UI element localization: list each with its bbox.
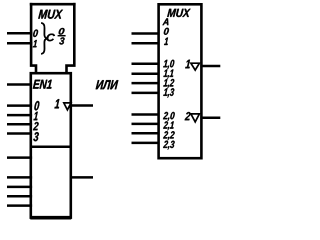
output label 1 (upper element): [54, 99, 59, 108]
open-output triangle (upper element): [64, 103, 71, 110]
wire EN1 input: [7, 83, 32, 86]
fraction denominator 3: [59, 37, 64, 44]
pin label 2,0: [163, 112, 175, 121]
label A (address group): [162, 18, 168, 25]
element array block U2 outline (two stacked MUX elements, left diagram): [31, 73, 71, 217]
output label 1 (right block): [185, 60, 190, 69]
wire input 2,1: [132, 123, 160, 126]
open-output triangle 2 (right block): [191, 114, 200, 122]
pin label 2,1: [163, 121, 174, 130]
pin label 2,2: [163, 131, 175, 140]
wire address input 0 (right block): [132, 32, 160, 35]
fraction numerator 0: [59, 28, 65, 35]
pin label 3: [33, 132, 38, 141]
label C (select dependency): [47, 34, 55, 42]
pin label 2: [33, 122, 39, 130]
label MUX (control block title): [38, 10, 63, 19]
wire input 2,0: [132, 113, 160, 116]
brace grouping select inputs: [41, 23, 47, 54]
wire input 2,3: [132, 142, 160, 145]
wire input 3 (upper element): [7, 132, 32, 135]
wire input 1 (lower element): [7, 186, 32, 189]
label EN1: [33, 80, 52, 89]
wire output 1 (right block): [200, 65, 220, 68]
wire output 2 (right block): [200, 117, 220, 120]
open-output triangle 1 (right block): [191, 63, 200, 70]
bottom edge (thicker, scan look): [30, 216, 71, 220]
wire output (lower element): [70, 176, 93, 179]
pin label 1,2: [163, 79, 174, 88]
wire input 0 (upper element): [7, 104, 32, 107]
label MUX (right block title): [167, 9, 190, 17]
pin label 0: [34, 101, 39, 110]
select input label 1: [33, 40, 37, 47]
wire input 1,0: [132, 63, 160, 66]
wire input 2 (upper element): [7, 123, 32, 126]
wire input 2,2: [132, 132, 160, 135]
wire address input 1 (right block): [132, 42, 160, 45]
wire input 2 (lower element): [7, 195, 32, 198]
address pin label 1: [164, 38, 168, 45]
wire input 1,1: [132, 73, 160, 76]
pin label 1: [34, 112, 38, 120]
select input label 0: [33, 30, 38, 38]
pin label 1,1: [163, 69, 173, 78]
label ILI (OR alternative): [96, 80, 119, 89]
control block U1 outline (MUX common control block, left diagram): [30, 3, 76, 74]
pin label 1,3: [163, 88, 174, 97]
wire EN input (lower element): [7, 156, 32, 159]
output label 2 (right block): [185, 112, 191, 120]
wire input 1,2: [132, 82, 160, 85]
wire input 0 (lower element): [7, 176, 32, 179]
wire select input 1 (control block): [7, 42, 32, 45]
combined MUX block U3 outline (right diagram): [159, 4, 202, 158]
pin label 2,3: [163, 141, 175, 150]
wire select input 0 (control block): [7, 32, 32, 35]
pin label 1,0: [163, 60, 174, 69]
wire input 1,3: [132, 92, 160, 95]
separator between stacked elements: [31, 146, 71, 149]
wire input 3 (lower element): [7, 204, 32, 207]
wire output (upper element): [70, 104, 93, 107]
wire input 1 (upper element): [7, 114, 32, 117]
fraction bar: [58, 35, 66, 37]
address pin label 0: [164, 28, 169, 35]
